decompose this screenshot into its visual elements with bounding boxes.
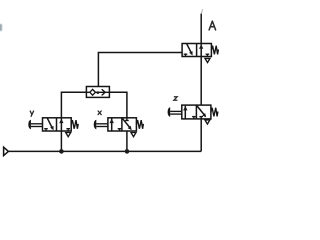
- shuttle valve: [86, 87, 109, 98]
- valve A 3/2-way: [182, 44, 211, 57]
- label z: [174, 97, 178, 101]
- wire valve y to shuttle: [61, 92, 86, 118]
- wire valve A to valve z: [200, 57, 202, 106]
- valve Y pushbutton: [28, 120, 42, 130]
- compressed air source: [4, 147, 9, 155]
- valve X 3/2-way pushbutton: [108, 118, 136, 131]
- label y: [30, 111, 33, 116]
- valve Y spring: [71, 120, 78, 129]
- valve Z pushbutton: [168, 107, 182, 117]
- stray blue mark at left edge: [0, 24, 3, 32]
- valve Z exhaust: [205, 120, 210, 124]
- valve X pushbutton: [94, 120, 108, 130]
- node A line top: [201, 9, 202, 43]
- valve Z 3/2-way pushbutton: [182, 105, 211, 119]
- valve Y exhaust: [66, 133, 71, 137]
- wire valve y to bus: [60, 131, 62, 151]
- valve X exhaust: [131, 133, 136, 137]
- wire supply bus: [8, 150, 201, 152]
- valve A exhaust: [205, 58, 210, 62]
- junction dot 2: [125, 149, 130, 154]
- wire shuttle to valve x: [109, 92, 127, 118]
- valve A spring: [211, 46, 218, 55]
- junction dot 1: [59, 149, 64, 154]
- wire valve x to bus: [126, 131, 128, 151]
- label A: [209, 21, 216, 30]
- valve X spring: [136, 120, 143, 129]
- label x: [98, 111, 101, 115]
- pilot wire shuttle to valve A: [98, 53, 182, 87]
- wire valve z to bus: [200, 119, 202, 151]
- valve Z spring: [211, 108, 218, 117]
- valve Y 3/2-way pushbutton: [43, 118, 72, 131]
